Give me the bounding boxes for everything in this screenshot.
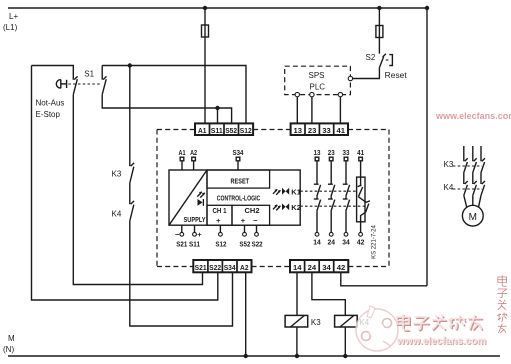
watermark vertical brand glyphs [497, 275, 507, 333]
coil K4 [335, 315, 370, 327]
relay K1 indicator [273, 188, 301, 197]
CH1 box [207, 205, 232, 225]
K1 actuation dashed link [300, 190, 356, 192]
right rail from L+ [426, 8, 428, 286]
wire S1 contact2 top to terminal S12 [102, 66, 246, 124]
watermark brand text bottom [397, 314, 483, 331]
wire S1 contact1 bottom to terminal S21 [73, 95, 202, 285]
wire coil K4 to M rail [344, 327, 346, 356]
wire terminal A2 to M rail [245, 272, 247, 356]
junction on L+ at fuse F2 [377, 6, 381, 10]
relay block pin S12 [215, 225, 226, 248]
pin circle 24 [329, 232, 333, 236]
terminal block S21 S22 S34 A2 [193, 260, 251, 272]
RESET box [207, 170, 270, 188]
wire left branch to terminal S22 [32, 66, 218, 301]
pin circle 14 [315, 232, 319, 236]
supply LED symbols [197, 192, 205, 206]
K2 actuation dashed link [300, 205, 365, 207]
wire S1 contact2 bottom to S11/S52 [102, 95, 231, 124]
terminal block A1 S11 S52 S12 [195, 123, 253, 135]
contact 33-34 K1 [343, 184, 350, 198]
contact 33-34 K2 [343, 199, 350, 232]
fuse F1 [202, 25, 209, 37]
relay K2 indicator [273, 203, 301, 212]
wire L+ to fuse F1 to terminal A1 [204, 8, 206, 123]
supply section diagonal [169, 170, 207, 225]
wire terminal 24 to coil K4 [312, 272, 345, 315]
contact 23-24 K1 [328, 184, 335, 198]
supply section divider [206, 170, 208, 225]
wire S2 to SPS/PLC [353, 68, 380, 79]
motor branch phase lines [464, 146, 481, 161]
junction A2 on M rail [244, 354, 248, 358]
contactor K3 main contacts [444, 158, 485, 184]
junction on L+ at fuse F1 [203, 6, 207, 10]
pin circle SPS bottom 3 [338, 92, 342, 96]
wire terminal 14 to coil K3 [296, 272, 298, 315]
power rail M (N) [3, 334, 500, 356]
watermark logo [356, 306, 398, 351]
SPS / PLC box [285, 66, 351, 94]
pin circle SPS bottom 2 [310, 92, 314, 96]
terminal block 13 23 33 41 (top) [291, 123, 348, 135]
switch S2 (reset button) [366, 53, 408, 80]
switch S1 contact 2 [84, 66, 106, 95]
CH2 box [232, 205, 270, 225]
junction K4 on M rail [343, 354, 347, 358]
switch S1 contact 1 [32, 66, 78, 95]
relay block pin S22 [252, 225, 263, 248]
relay block pin S52 [239, 225, 250, 248]
wire SPS to terminal 23 [311, 97, 313, 124]
pin circle 42 [359, 232, 363, 236]
contactor K4 main contacts [444, 181, 485, 195]
relay block pin A2 [190, 148, 197, 170]
pin circle SPS right [348, 76, 352, 80]
pin circle SPS bottom 1 [295, 92, 299, 96]
contactor contact K3 (feedback loop) [112, 66, 135, 184]
wire terminal 42 to right rail [341, 272, 427, 286]
wire junction to terminal S11 [217, 108, 219, 123]
relay block pin 41 [357, 148, 364, 177]
wire L+ to fuse F2 [378, 8, 380, 54]
terminal block 14 24 34 42 (bottom) [290, 260, 348, 272]
contact 41-42 enclosure [357, 177, 370, 232]
relay block pin 33 [343, 148, 350, 184]
watermark text elements (HTML overlay) [436, 111, 511, 121]
relay block pin S21 [175, 225, 187, 248]
junction on L+ at right rail [425, 6, 429, 10]
relay block pin 23 [328, 148, 335, 184]
relay block main box [169, 170, 300, 225]
safety relay dashed enclosure [157, 130, 389, 267]
coil K3 [285, 315, 321, 327]
junction at S11 [215, 106, 219, 110]
contactor contact K4 (feedback loop) [112, 183, 135, 221]
wire feedback chain to terminal S34 [130, 221, 233, 326]
relay block pin S34 [233, 148, 245, 170]
pin circle 34 [344, 232, 348, 236]
junction K3/K4 chain tap [128, 63, 132, 67]
watermark url bottom [397, 336, 486, 347]
motor M1 [462, 195, 483, 226]
wire SPS to terminal 13 [296, 97, 298, 124]
fuse F2 [376, 26, 383, 38]
contact 13-14 K1 [314, 184, 321, 198]
relay block pin 13 [314, 148, 321, 184]
power rail L+ [3, 8, 427, 32]
relay block pin S11 [189, 225, 202, 248]
contact 13-14 K2 [314, 199, 321, 232]
junction K3 on M rail [295, 354, 299, 358]
emergency stop actuator (mushroom head) [36, 80, 101, 119]
wire SPS to terminal 41 [339, 97, 341, 124]
wire coil K3 to M rail [296, 327, 298, 356]
relay block pin A1 [179, 148, 186, 170]
contact 23-24 K2 [328, 199, 335, 232]
